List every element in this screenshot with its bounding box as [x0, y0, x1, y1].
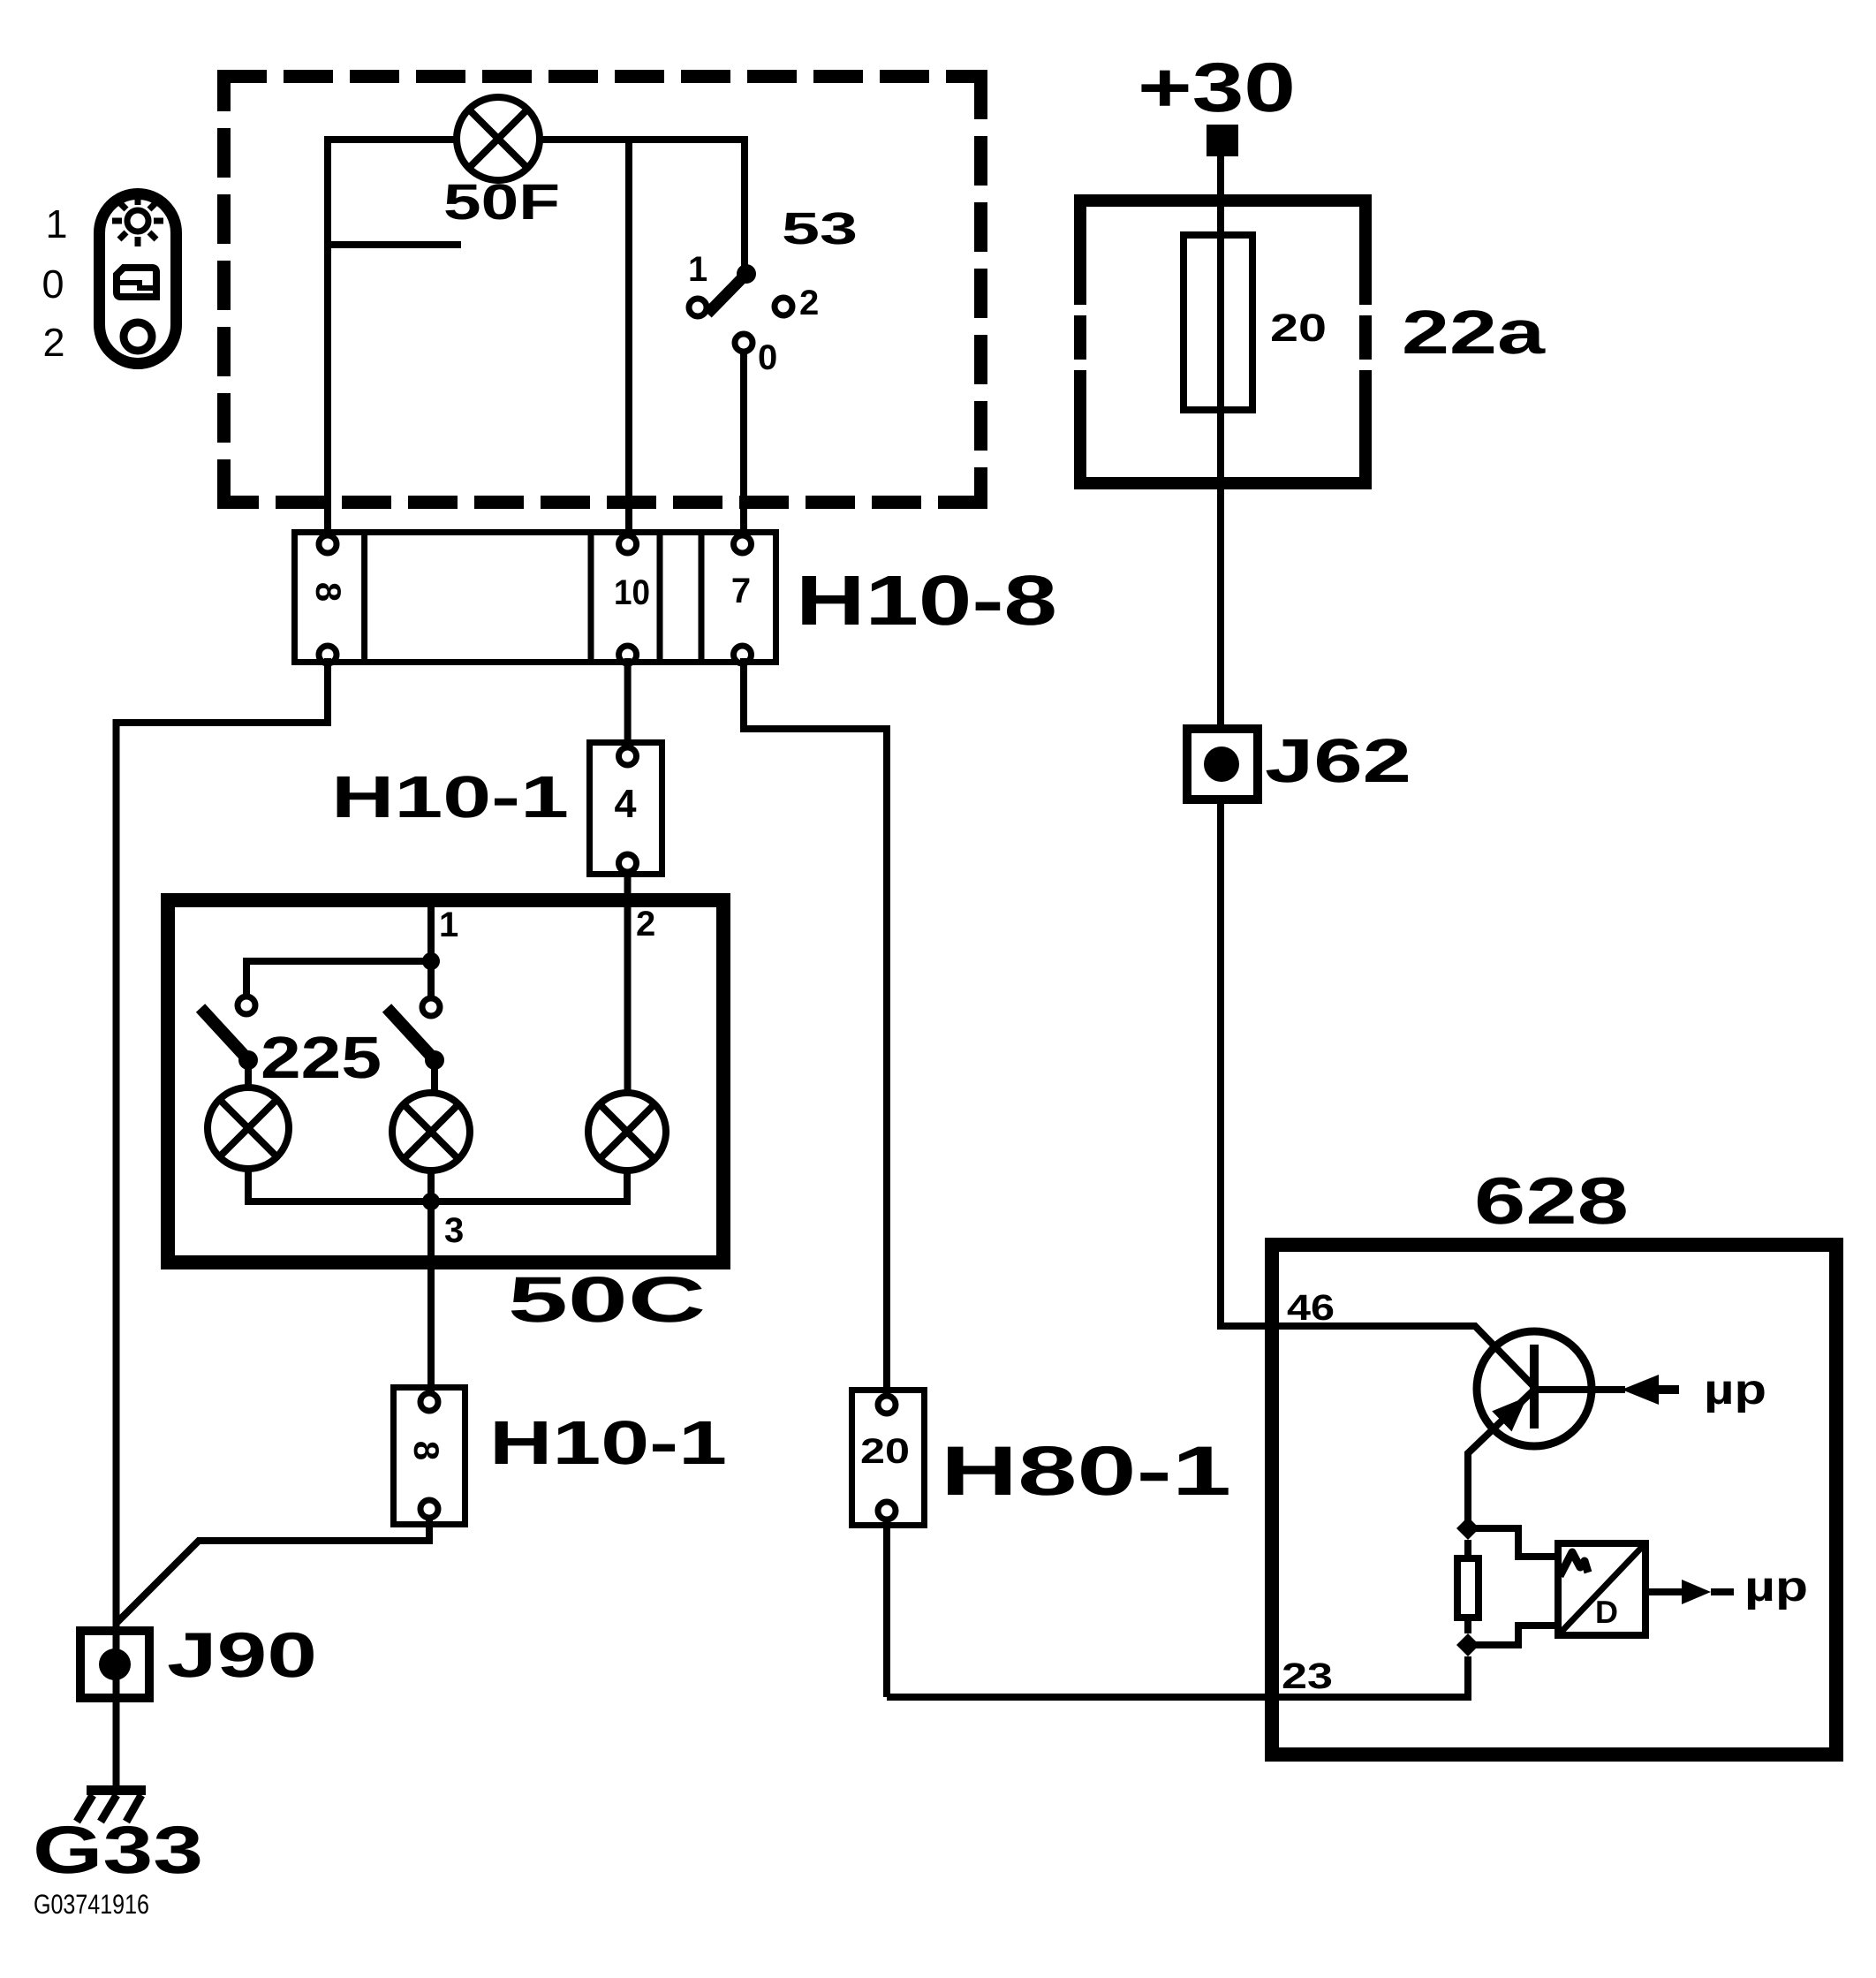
svg-text:J90: J90: [167, 1620, 317, 1691]
svg-text:22a: 22a: [1402, 298, 1546, 367]
svg-text:1: 1: [45, 201, 67, 246]
svg-text:8: 8: [406, 1441, 445, 1460]
svg-text:225: 225: [261, 1025, 382, 1091]
svg-text:50C: 50C: [508, 1264, 706, 1336]
svg-text:1: 1: [688, 250, 707, 289]
svg-text:8: 8: [308, 582, 347, 602]
svg-text:1: 1: [439, 906, 458, 944]
svg-text:G33: G33: [33, 1813, 203, 1888]
svg-text:4: 4: [614, 781, 636, 826]
svg-text:20: 20: [1270, 307, 1327, 350]
svg-text:23: 23: [1282, 1656, 1333, 1696]
svg-text:53: 53: [782, 203, 858, 254]
svg-text:D: D: [1595, 1594, 1618, 1630]
svg-text:0: 0: [758, 338, 777, 377]
svg-text:+30: +30: [1138, 48, 1296, 126]
svg-text:50F: 50F: [443, 174, 560, 231]
svg-text:20: 20: [860, 1432, 910, 1471]
svg-text:10: 10: [614, 573, 650, 612]
svg-text:H80-1: H80-1: [941, 1431, 1231, 1510]
svg-text:H10-1: H10-1: [489, 1408, 727, 1477]
svg-text:J62: J62: [1265, 726, 1411, 795]
svg-text:H10-1: H10-1: [331, 764, 569, 830]
svg-text:µp: µp: [1744, 1564, 1808, 1610]
svg-text:G03741916: G03741916: [34, 1889, 149, 1920]
svg-text:46: 46: [1287, 1287, 1335, 1328]
svg-text:0: 0: [42, 261, 64, 307]
svg-text:H10-8: H10-8: [796, 561, 1057, 640]
svg-text:7: 7: [731, 572, 751, 610]
svg-text:2: 2: [636, 905, 655, 944]
svg-text:628: 628: [1474, 1163, 1629, 1238]
svg-text:2: 2: [799, 284, 819, 322]
svg-text:3: 3: [444, 1211, 464, 1250]
svg-text:µp: µp: [1704, 1367, 1766, 1413]
svg-text:2: 2: [42, 320, 64, 365]
